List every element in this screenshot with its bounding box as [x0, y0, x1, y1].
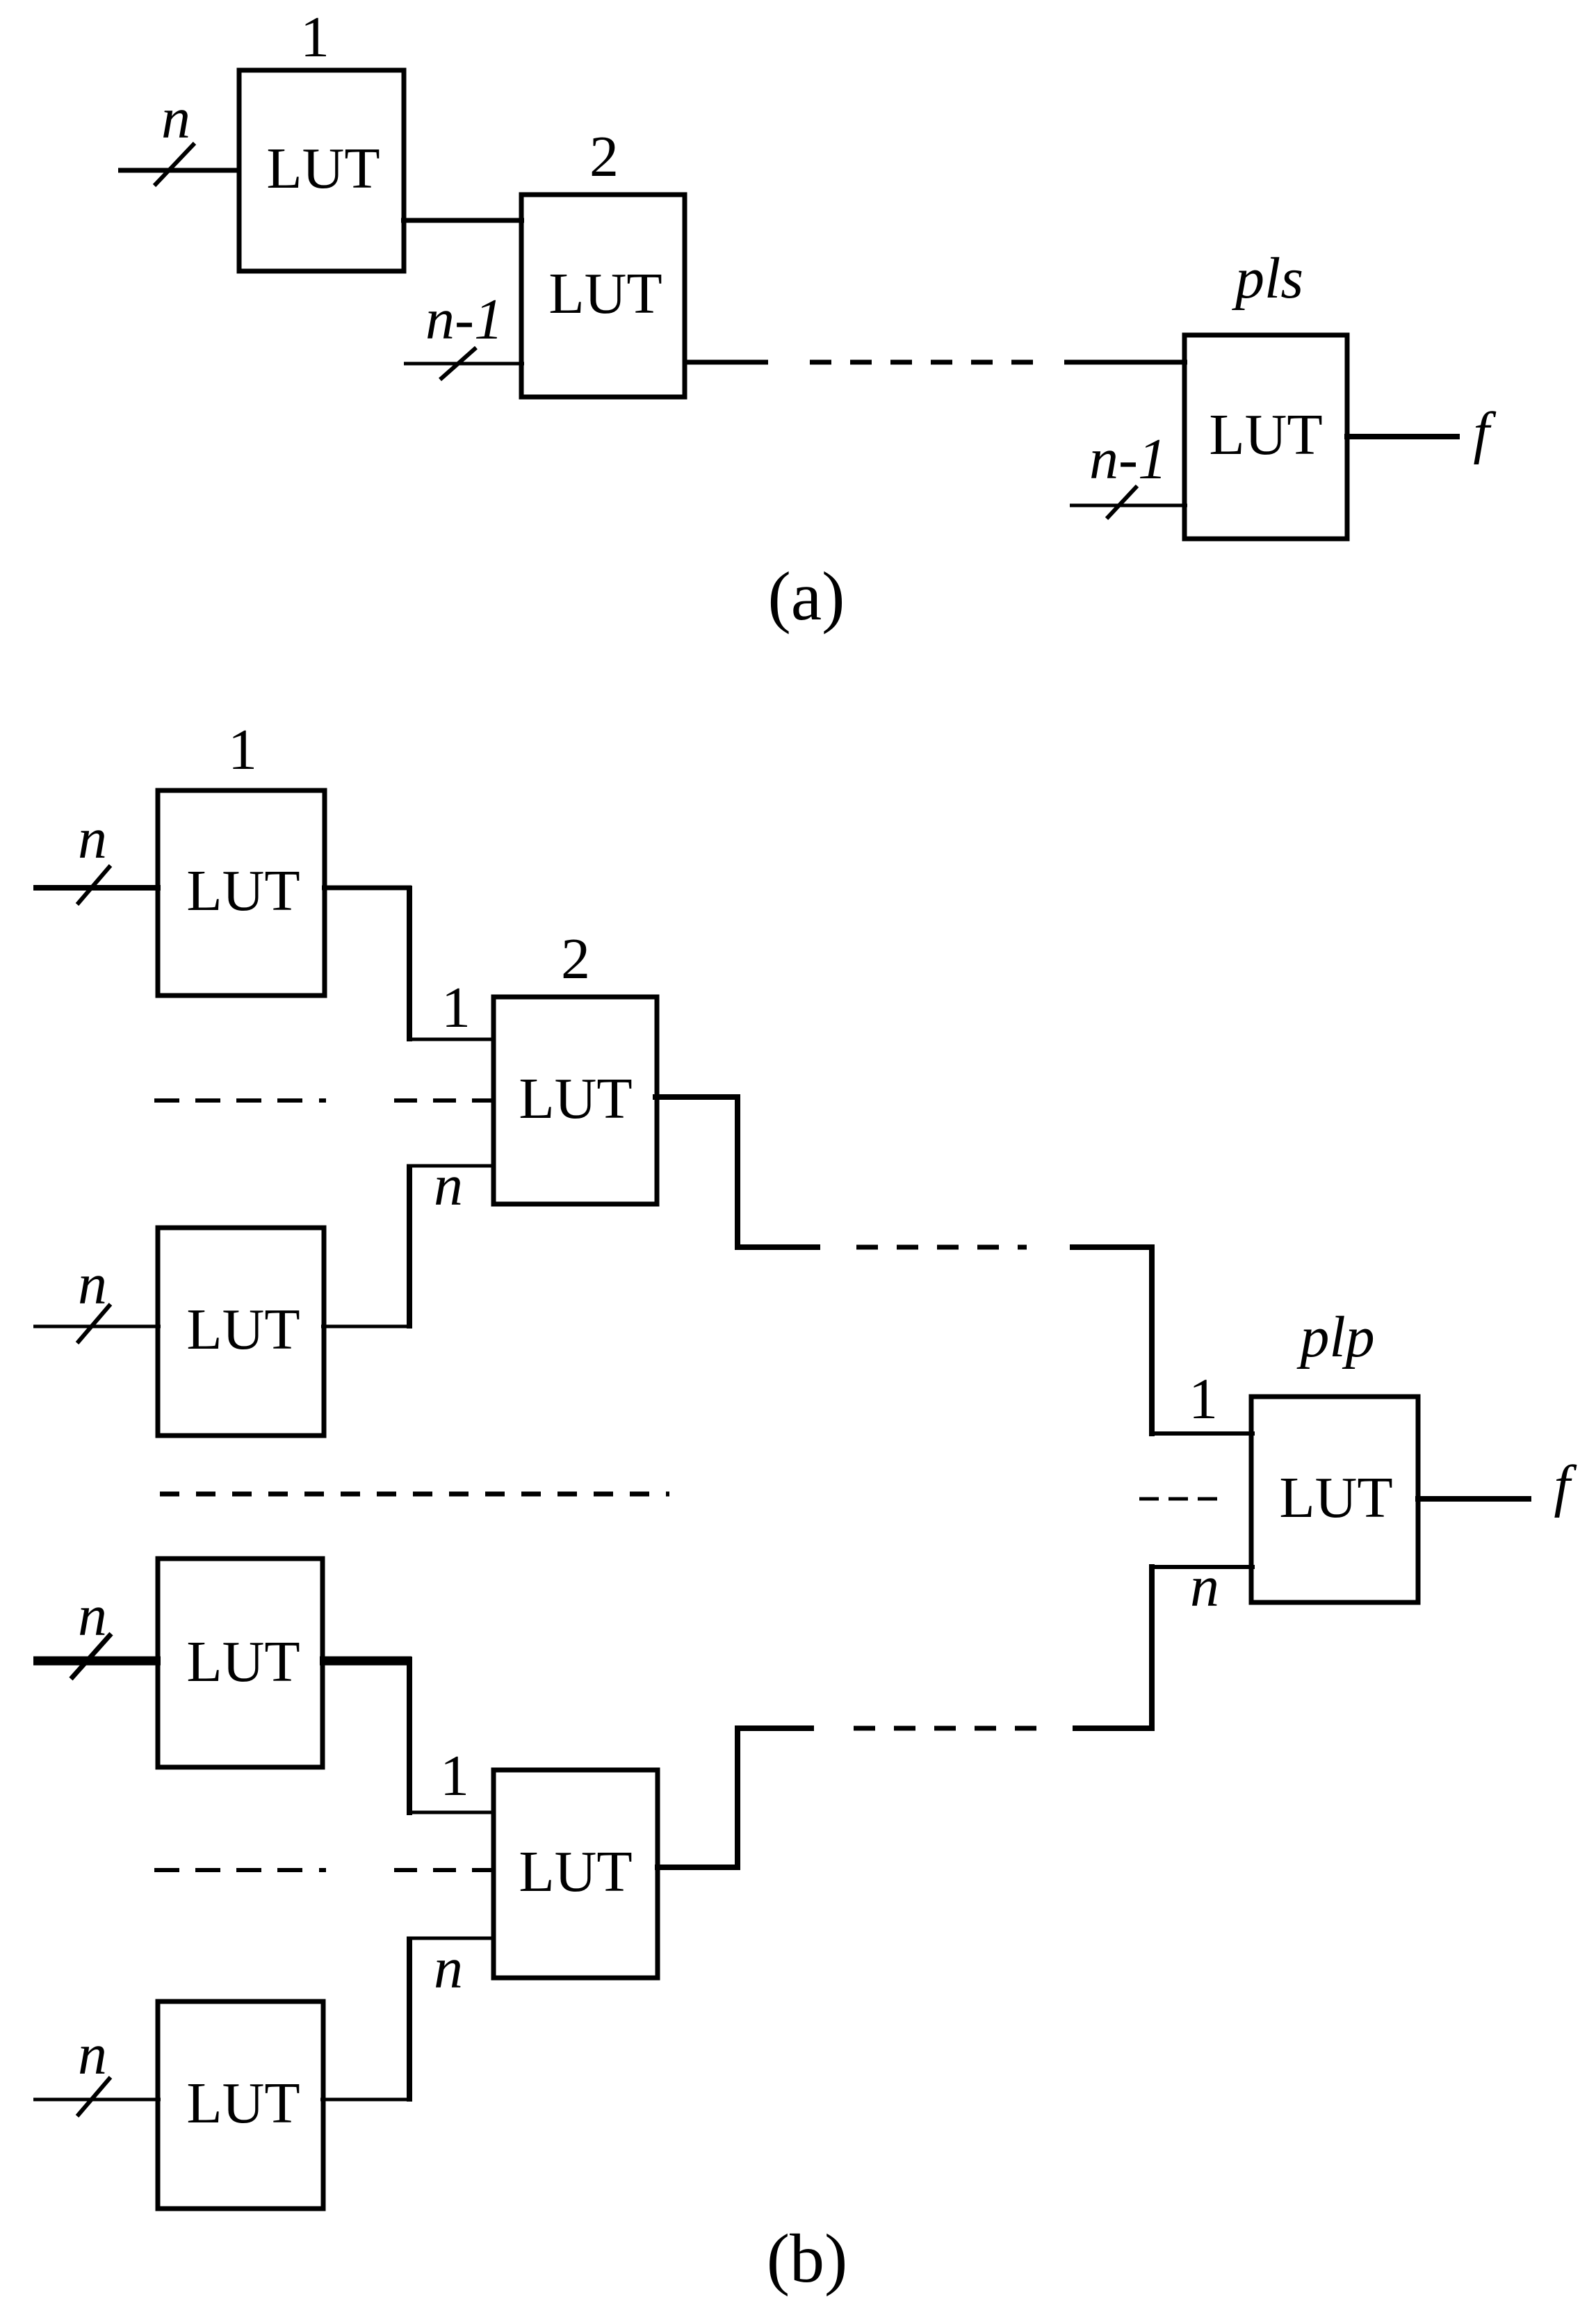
svg-text:n: n — [78, 1252, 107, 1317]
svg-text:f: f — [1473, 400, 1497, 465]
wire: B2 output horizontal — [653, 1094, 740, 1100]
svg-text:n-1: n-1 — [1089, 427, 1167, 492]
svg-text:plp: plp — [1296, 1305, 1374, 1370]
svg-text:LUT: LUT — [186, 1297, 300, 1362]
svg-text:(a): (a) — [768, 558, 845, 635]
LUT B5 (second-level bottom LUT) — [494, 1770, 658, 1978]
svg-text:pls: pls — [1232, 246, 1303, 311]
dashed rail: more first-level LUTs (left segment, lower) — [154, 1868, 307, 1872]
wire: into plp input 1 — [1149, 1431, 1255, 1436]
wire: B5 output horizontal — [655, 1865, 740, 1870]
wire: cascade continuation (dashed) — [810, 360, 1033, 365]
svg-text:n: n — [434, 1153, 463, 1218]
wire: n-bit input bus to LUT B1 — [33, 885, 161, 891]
svg-text:2: 2 — [561, 927, 590, 991]
wire: n-bit input bus to LUT B6 — [33, 2098, 161, 2102]
svg-text:1: 1 — [441, 975, 471, 1040]
LUT B7 (final LUT plp) — [1251, 1397, 1418, 1602]
wire: dashed continuation toward plp — [856, 1245, 1027, 1250]
wire: n-bit bold input bus to LUT B4 — [33, 1657, 161, 1666]
dashed: more plp inputs — [1139, 1497, 1218, 1501]
wire: n-bit input bus to LUT A1 — [118, 168, 239, 173]
svg-text:LUT: LUT — [1279, 1465, 1392, 1530]
dashed rail: divider between tree halves — [160, 1492, 669, 1497]
wire: into LUT A3 (solid part) — [1064, 360, 1187, 365]
wire: into B5 input n — [407, 1937, 495, 1940]
svg-text:LUT: LUT — [519, 1066, 632, 1131]
dashed rail: dot (lower) — [319, 1868, 326, 1872]
svg-text:LUT: LUT — [186, 1630, 300, 1694]
bus slash on B6 input — [77, 2077, 111, 2116]
LUT B4 (first-level third LUT, bold input) — [158, 1559, 323, 1767]
bus slash on B3 input — [77, 1304, 111, 1343]
wire: into B5 input 1 — [407, 1811, 495, 1814]
wire: output f of tree b — [1415, 1496, 1531, 1502]
LUT A2 (block 2 of cascade a) — [521, 195, 685, 397]
wire: B3 output horizontal — [321, 1325, 412, 1329]
svg-text:1: 1 — [440, 1744, 469, 1808]
svg-text:(b): (b) — [767, 2220, 848, 2297]
wire: B5 output step horizontal — [735, 1725, 814, 1731]
svg-text:LUT: LUT — [266, 136, 380, 201]
LUT A1 (block 1 of cascade a) — [239, 70, 404, 271]
wire: B3 output vertical rise — [407, 1166, 412, 1329]
svg-text:1: 1 — [300, 5, 329, 70]
wire: B2 output step horizontal — [735, 1244, 820, 1250]
bus slash on A2 input — [440, 348, 476, 380]
wire: B4 output horizontal (bold) — [320, 1657, 412, 1666]
svg-text:n-1: n-1 — [425, 287, 503, 352]
wire: riser down to plp input 1 — [1149, 1244, 1155, 1436]
bus slash on A1 input — [154, 143, 195, 186]
wire: solid into riser — [1070, 1244, 1155, 1250]
wire: riser up to plp input n — [1149, 1564, 1155, 1731]
wire: LUT A2 output (solid part) — [685, 360, 768, 365]
wire: B1 output vertical drop — [407, 886, 412, 1041]
LUT B3 (first-level second LUT) — [158, 1228, 324, 1436]
wire: into B2 input 1 — [407, 1038, 495, 1041]
bus slash on B1 input — [77, 866, 111, 904]
wire: B6 output horizontal — [320, 2098, 412, 2102]
svg-text:n: n — [161, 86, 190, 151]
LUT A3 (last block pls of cascade a) — [1184, 335, 1347, 539]
svg-text:n: n — [78, 2022, 107, 2087]
LUT B1 (first-level top LUT) — [158, 790, 325, 996]
svg-text:LUT: LUT — [1209, 403, 1322, 467]
svg-text:2: 2 — [589, 124, 619, 189]
wire: into B2 input n — [407, 1164, 495, 1168]
wire: dashed continuation from B5 — [854, 1726, 1039, 1731]
wire: B4 output vertical drop — [407, 1657, 412, 1815]
dashed rail: right segment into B2 — [394, 1098, 495, 1103]
svg-text:LUT: LUT — [548, 261, 662, 326]
wire: solid from dashed run — [1073, 1725, 1155, 1731]
svg-text:1: 1 — [1189, 1367, 1218, 1431]
bus slash on B4 input — [71, 1634, 111, 1679]
wire: B2 output vertical drop — [735, 1094, 740, 1250]
svg-text:n: n — [78, 1584, 107, 1648]
wire: B5 output vertical rise — [735, 1725, 740, 1870]
wire: B1 output horizontal — [322, 886, 412, 891]
wire: LUT A1 output to LUT A2 — [401, 218, 524, 223]
dashed rail: right segment into B5 — [394, 1868, 495, 1872]
wire: n-bit input bus to LUT B3 — [33, 1325, 161, 1329]
svg-text:n: n — [78, 806, 107, 871]
svg-text:LUT: LUT — [186, 2071, 300, 2136]
svg-text:LUT: LUT — [186, 859, 300, 923]
LUT B2 (second-level top LUT) — [494, 997, 657, 1204]
wire: into plp input n — [1149, 1565, 1255, 1569]
wire: B6 output vertical rise — [407, 1938, 412, 2102]
wire: n-1 bit input bus to LUT A3 — [1070, 504, 1187, 507]
wire: n-1 bit input bus to LUT A2 — [404, 362, 524, 366]
dashed rail: dot — [319, 1098, 326, 1103]
bus slash on A3 input — [1107, 486, 1137, 519]
wire: output f of cascade a — [1344, 434, 1460, 439]
svg-text:LUT: LUT — [519, 1839, 632, 1904]
svg-text:1: 1 — [228, 717, 257, 782]
svg-text:n: n — [434, 1936, 463, 2001]
dashed rail: more first-level LUTs (left segment) — [154, 1098, 307, 1103]
svg-text:f: f — [1554, 1454, 1577, 1518]
LUT B6 (first-level bottom LUT) — [158, 2001, 323, 2209]
svg-text:n: n — [1190, 1554, 1219, 1619]
